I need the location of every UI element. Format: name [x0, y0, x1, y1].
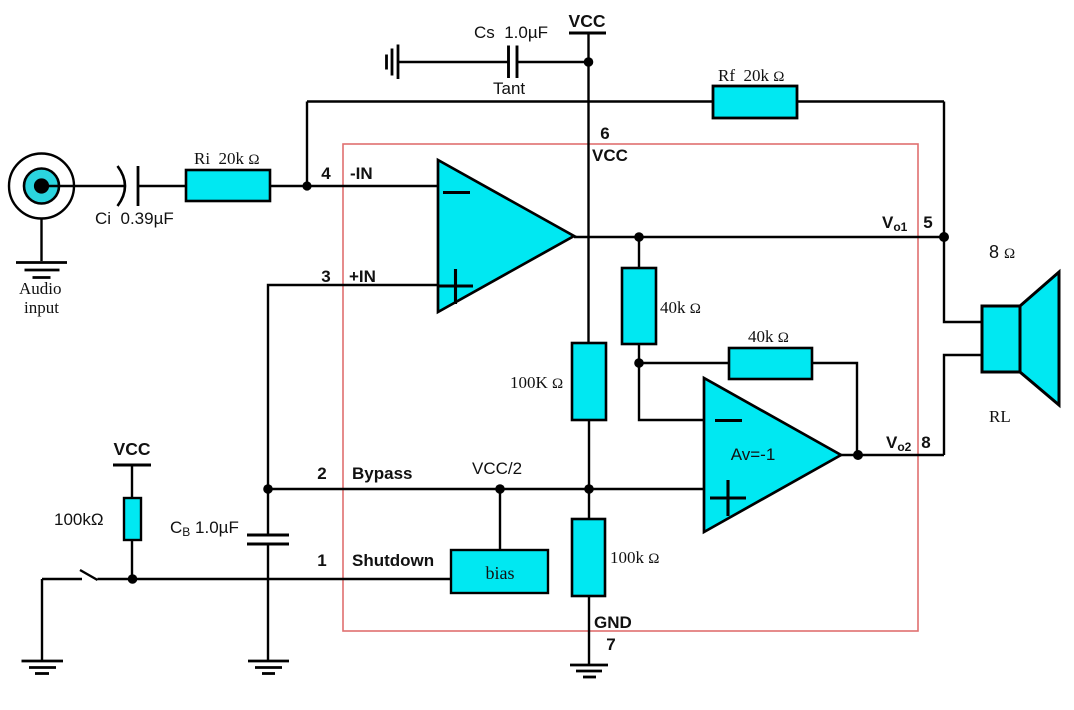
wire ground to Cs [398, 61, 509, 63]
node shutdown junction [128, 574, 138, 584]
U1A plus input mark [439, 269, 474, 304]
wire node to 40k horizontal [639, 362, 729, 364]
svg-text:6: 6 [600, 124, 609, 143]
svg-text:-IN: -IN [350, 164, 373, 183]
capacitor Cs 1.0uF Tant [509, 46, 518, 79]
ground (GND pin 7) [570, 665, 608, 677]
svg-text:100k Ω: 100k Ω [610, 548, 659, 567]
svg-text:3: 3 [321, 267, 330, 286]
node VCC/2 junction [495, 484, 505, 494]
capacitor Ci 0.39uF [118, 166, 139, 206]
svg-text:VCC: VCC [114, 439, 151, 459]
op-amp U1A [438, 160, 574, 312]
resistor 100k (lower divider) [572, 519, 605, 596]
svg-text:Bypass: Bypass [352, 464, 412, 483]
speaker RL horn [1020, 272, 1059, 405]
svg-text:100kΩ: 100kΩ [54, 510, 104, 529]
wire -IN node up to feedback [306, 102, 308, 187]
node VCC junction [584, 57, 594, 67]
svg-text:100K Ω: 100K Ω [510, 373, 563, 392]
svg-text:CB 1.0µF: CB 1.0µF [170, 518, 239, 539]
node +IN/bypass junction [263, 484, 273, 494]
svg-text:8: 8 [921, 433, 930, 452]
svg-text:5: 5 [923, 213, 932, 232]
node 40k junction [634, 358, 644, 368]
wire Ri to -IN pin [270, 185, 438, 187]
wire 40k bottom to node [638, 344, 640, 363]
wire 100k to ground [588, 596, 590, 665]
svg-text:Cs 1.0µF: Cs 1.0µF [474, 23, 548, 42]
resistor 100k (pull-up) [124, 498, 141, 540]
svg-text:bias: bias [486, 563, 515, 583]
wire 100k to shutdown node [131, 540, 133, 579]
wire node down to U1B minus input [639, 363, 704, 420]
wire Vo2 up to speaker bottom [944, 355, 982, 455]
resistor Rf 20k [713, 86, 797, 118]
wire bypass node down to 100k [588, 489, 590, 519]
svg-text:7: 7 [606, 635, 615, 654]
wire Ci to Ri [138, 185, 186, 187]
node bypass divider junction [584, 484, 594, 494]
wire 40k to Vo2 [812, 363, 857, 455]
node Vo1 pin5 junction [939, 232, 949, 242]
resistor 40k (horizontal) [729, 348, 812, 379]
wire switch to bias (shutdown rail) [98, 578, 452, 580]
svg-text:RL: RL [989, 407, 1011, 426]
wire +IN left and down to bypass [268, 285, 438, 489]
switch SW1 blade [80, 570, 98, 580]
wire RCA shield down [40, 219, 42, 262]
svg-text:input: input [24, 298, 59, 317]
wire U1B output [841, 454, 944, 456]
IC boundary red box [343, 144, 918, 631]
wire VCC/2 to bias box [499, 489, 501, 550]
svg-text:Rf 20k Ω: Rf 20k Ω [718, 66, 784, 85]
U1B minus input mark [715, 419, 742, 422]
resistor 40k (vertical) [622, 268, 656, 344]
ground (audio input) [16, 263, 67, 278]
wire Cs to VCC node [517, 61, 589, 63]
svg-text:VCC: VCC [592, 146, 628, 165]
svg-text:Audio: Audio [19, 279, 62, 298]
svg-text:40k Ω: 40k Ω [660, 298, 701, 317]
svg-text:VCC: VCC [569, 11, 606, 31]
svg-text:GND: GND [594, 613, 632, 632]
svg-text:Shutdown: Shutdown [352, 551, 434, 570]
svg-text:Tant: Tant [493, 79, 525, 98]
capacitor CB 1.0uF [267, 489, 269, 535]
op-amp U1B Av=-1 [704, 378, 841, 532]
U1B plus input mark [710, 480, 746, 516]
wire RCA center to Ci [48, 185, 126, 187]
resistor 100K (upper divider) [572, 343, 606, 420]
speaker RL body [982, 306, 1020, 372]
svg-text:2: 2 [317, 464, 326, 483]
svg-text:Av=-1: Av=-1 [731, 445, 776, 464]
wire bypass rail [268, 488, 704, 490]
svg-text:VCC/2: VCC/2 [472, 459, 522, 478]
RCA jack J1 (audio input connector) [9, 154, 74, 219]
svg-text:40k Ω: 40k Ω [748, 327, 789, 346]
node output junction [634, 232, 644, 242]
wire Vo1 to speaker top [944, 237, 982, 322]
node Vo2 junction [853, 450, 863, 460]
svg-text:+IN: +IN [349, 267, 376, 286]
resistor Ri 20k [186, 170, 270, 201]
bias block [451, 550, 548, 593]
wire feedback down to Vo1 [943, 102, 945, 238]
wire feedback top run [307, 100, 944, 102]
svg-text:Ci 0.39µF: Ci 0.39µF [95, 209, 174, 228]
wire switch to ground [41, 579, 43, 661]
wire 40k tap from output [638, 237, 640, 268]
ground (CB) [248, 661, 289, 674]
wire VCC rail down [587, 62, 589, 343]
node -IN junction [302, 181, 311, 190]
svg-text:4: 4 [321, 164, 331, 183]
wire 100K to bypass node [588, 420, 590, 489]
svg-text:Ri 20k Ω: Ri 20k Ω [194, 149, 259, 168]
ground (Cs supply bypass) [387, 45, 399, 80]
ground (switch) [22, 661, 64, 674]
wire U1A output to pin 5 [574, 236, 944, 238]
U1A minus input mark [443, 191, 470, 194]
wire CB to ground [267, 544, 269, 661]
wire switch left stub [42, 578, 82, 580]
svg-text:1: 1 [317, 551, 326, 570]
